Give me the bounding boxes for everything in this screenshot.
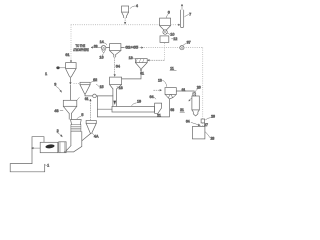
svg-text:68: 68	[170, 108, 174, 112]
wire screen to box 62	[122, 70, 141, 79]
wire dashed arrow into twin hopper	[154, 89, 160, 91]
cyclone collector box	[110, 44, 121, 51]
hopper 48	[63, 100, 77, 106]
flange coupling	[59, 142, 66, 153]
funnel 4A	[86, 121, 96, 124]
svg-text:61: 61	[85, 97, 89, 101]
svg-text:7: 7	[189, 12, 191, 16]
wire dotted vertical to hopper 40	[70, 25, 72, 60]
svg-text:15: 15	[100, 85, 104, 89]
svg-text:48: 48	[54, 109, 58, 113]
hopper 4	[122, 6, 129, 12]
svg-text:26: 26	[211, 114, 215, 118]
wire twin hopper to vessel	[176, 91, 194, 93]
arrow on vessel left	[189, 98, 192, 101]
vibrator oval on hopper 40	[56, 66, 59, 69]
drive shaft with arrow	[31, 147, 40, 149]
chute from funnel 4A	[82, 133, 91, 140]
twin weigh hopper	[165, 88, 176, 95]
svg-text:63: 63	[94, 44, 98, 48]
wire feeder line right	[96, 95, 113, 97]
elbow to mixer	[64, 146, 82, 152]
svg-text:4A: 4A	[94, 135, 99, 139]
wire dashed drop 64	[114, 57, 116, 74]
wire dotted feed into funnel 15	[74, 82, 80, 84]
svg-text:21: 21	[157, 113, 161, 117]
svg-text:2: 2	[57, 129, 59, 133]
wire hopper 40 to hopper 48	[69, 85, 71, 100]
arrow into hopper 40	[70, 60, 72, 62]
svg-text:10: 10	[170, 32, 174, 36]
wire stem into conveyor 19	[113, 89, 117, 107]
exhaust arrow up	[181, 4, 183, 10]
wire dotted into stack 7	[171, 24, 178, 26]
wire to atmosphere with arrow	[91, 47, 101, 49]
feeder circle	[93, 94, 97, 98]
svg-text:11: 11	[170, 66, 174, 70]
svg-text:ATMOSPHERE: ATMOSPHERE	[73, 48, 89, 52]
svg-text:1: 1	[45, 71, 47, 76]
svg-text:1: 1	[47, 164, 49, 168]
arrow under hopper 40	[70, 82, 72, 84]
wire fan to cyclone	[106, 47, 110, 49]
svg-text:16: 16	[99, 56, 103, 60]
svg-text:37: 37	[187, 40, 191, 44]
wire twin hopper drop	[168, 99, 170, 117]
wire dotted down right side	[202, 48, 204, 119]
hopper 40	[66, 63, 77, 69]
screw ellipse	[45, 144, 55, 149]
conveyor pipe 19	[112, 106, 155, 112]
valve square on dotted line	[201, 119, 205, 123]
rotary valve 10	[163, 30, 167, 34]
funnel under box 6	[160, 26, 171, 30]
wire L drop to conveyor inlet	[96, 96, 98, 117]
elevator bellows	[71, 125, 81, 132]
trough under conveyor	[97, 116, 169, 118]
svg-text:64: 64	[186, 120, 190, 124]
discharge pentagon 21	[155, 103, 162, 113]
box 6	[160, 18, 171, 26]
svg-text:4: 4	[136, 4, 138, 8]
svg-text:3: 3	[54, 83, 56, 87]
wire dotted main horizontal line top	[71, 24, 159, 26]
wire dashed 62+65	[121, 47, 124, 49]
mixer barrel	[40, 142, 58, 152]
wire connector into pipe end	[97, 108, 112, 110]
wire funnel 15 to feeder circle	[85, 95, 93, 97]
svg-text:18: 18	[119, 86, 123, 90]
box 12 under valve	[160, 36, 169, 43]
wire dashed up from funnel 4A	[89, 101, 91, 120]
box 62	[110, 77, 122, 85]
svg-text:61: 61	[65, 53, 69, 57]
elevator 5 hopper rim	[71, 120, 82, 125]
elevator column	[71, 132, 82, 147]
svg-text:13: 13	[158, 79, 162, 83]
pedestal of mixer	[32, 137, 44, 164]
wire dashed into screen	[150, 59, 165, 61]
svg-text:64: 64	[150, 95, 154, 99]
svg-text:5: 5	[81, 113, 83, 117]
box 28	[192, 127, 205, 139]
screen	[135, 59, 147, 63]
machine base	[10, 164, 45, 172]
wire dashed stem of hopper 4	[124, 18, 126, 22]
funnel 18 under box 62	[110, 85, 122, 89]
svg-text:12: 12	[173, 37, 177, 41]
stack 7	[180, 10, 183, 27]
funnel 15	[80, 82, 90, 84]
svg-text:61: 61	[182, 88, 186, 92]
inlet valve X	[193, 93, 196, 96]
svg-text:21: 21	[180, 108, 184, 112]
svg-text:28: 28	[211, 136, 215, 140]
svg-text:13: 13	[129, 56, 133, 60]
vessel	[192, 96, 199, 110]
blower 37	[180, 46, 184, 50]
wire dotted from box 12 down	[163, 43, 165, 60]
fan 16	[101, 46, 106, 51]
svg-text:62+65: 62+65	[125, 46, 138, 50]
svg-text:14: 14	[100, 40, 104, 44]
svg-text:19: 19	[137, 100, 141, 104]
svg-text:64: 64	[116, 64, 120, 68]
